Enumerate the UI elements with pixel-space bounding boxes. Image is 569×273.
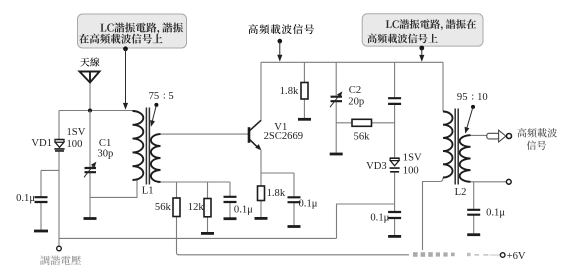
pointer L2 ratio arrow [467,107,473,129]
wire C2 branch [335,62,337,153]
svg-text:C1: C1 [99,138,111,149]
svg-text:0.1μ: 0.1μ [370,212,389,223]
svg-text:75: 75 [149,91,160,102]
pointer left callout arrow [125,49,127,105]
svg-text:VD1: VD1 [31,138,52,149]
svg-text:12k: 12k [188,202,205,213]
wire +6V rail [178,254,500,256]
svg-text:1.8k: 1.8k [267,188,286,199]
varactor VD1 [54,140,64,151]
wire VD1 to tuning terminal [58,152,60,247]
svg-text:5: 5 [168,91,173,102]
ground left filter [34,230,48,233]
svg-text:10: 10 [477,92,488,103]
wire tuning line step [337,204,395,238]
label tuning voltage [40,255,81,265]
resistor 1.8k emitter [258,186,265,201]
svg-text:100: 100 [403,165,419,176]
wire base [161,133,249,135]
pointer carrier arrow [279,41,281,57]
callout LC resonance left [78,14,187,48]
wire bias cap drop [229,182,231,218]
wire L2 output top [471,134,488,136]
node carrier pointer dot [278,39,283,44]
svg-text:2SC2669: 2SC2669 [264,131,303,142]
terminal output top [507,134,512,139]
wire VD3 to bypass cap [394,173,396,236]
node L2 ratio pointer dot [471,105,475,109]
ground bias cap [224,217,237,220]
resistor 12k [204,199,211,217]
svg-text:20p: 20p [348,97,364,108]
pointer right callout arrow [421,48,423,58]
antenna [80,72,100,83]
wire emitter bypass cap [293,173,295,225]
transformer L1 core [146,108,149,185]
transformer L1 primary [133,111,144,180]
svg-text:0.1μ: 0.1μ [234,205,253,216]
ground emitter cap [288,225,301,228]
svg-text::: : [471,91,474,102]
wire bias resistor drop [303,62,305,118]
svg-text:L2: L2 [455,187,467,198]
svg-text:56k: 56k [155,202,172,213]
node L1 ratio pointer dot [154,103,158,107]
wire C1 to ground [89,173,91,218]
output signal arrow [487,133,499,139]
node right callout pointer dot [419,46,424,51]
capacitor C2 [331,97,343,102]
svg-text:30p: 30p [97,148,113,159]
wire top-left rail [59,110,133,112]
wire 56k to +6V rail [177,217,179,255]
svg-text:1SV: 1SV [67,127,86,138]
ground 12k [201,232,214,235]
svg-text:1SV: 1SV [403,152,422,163]
label antenna [80,58,89,67]
resistor 56k bias [173,198,180,217]
wire emitter [261,150,294,217]
svg-text:+6V: +6V [507,251,526,262]
watermark on +6V rail [409,250,499,259]
wire top rail [261,61,443,63]
capacitor C1 [85,168,97,172]
svg-text:0.1μ: 0.1μ [299,199,318,210]
transformer L2 core [455,109,458,185]
svg-text:1.8k: 1.8k [280,86,299,97]
node left callout pointer dot [123,46,128,51]
label output signal [517,128,557,137]
capacitor coupling [388,98,401,104]
ground 1.8k bias [298,118,311,121]
pointer L1 ratio arrow [152,105,156,122]
wire L2 primary drop [442,62,444,111]
wire 56k drop [176,182,178,198]
svg-text:0.1μ: 0.1μ [486,208,505,219]
wire antenna to C1 [89,111,91,168]
node antenna junction [88,109,92,113]
callout LC resonance right [362,14,483,46]
svg-text:L1: L1 [142,185,154,196]
capacitor 0.1u output [467,210,480,215]
transformer L2 secondary [460,135,471,182]
wire L2 output bottom [471,181,507,183]
terminal output bottom [506,179,511,184]
wire coupling cap branch [394,62,396,157]
svg-text:95: 95 [457,92,468,103]
resistor 1.8k bias [301,83,308,100]
wire L2 bypass cap drop [473,182,475,234]
wire 56k horizontal link [336,122,394,124]
svg-text::: : [163,91,166,102]
capacitor 0.1u tuning filter [35,197,48,202]
wire antenna drop [89,83,91,111]
capacitor 0.1u bias [224,197,237,202]
svg-text:100: 100 [67,139,83,150]
terminal tuning voltage [57,246,62,251]
transistor V1 [249,120,261,150]
wire 12k drop [207,182,209,232]
wire L2 primary return [423,178,444,255]
ground C1 [84,217,97,220]
capacitor 0.1u emitter [288,197,301,202]
terminal +6V [500,253,505,258]
transformer L1 secondary [151,134,161,182]
capacitor 0.1u tuning line [388,212,401,218]
wire L1 primary bottom return [90,180,137,197]
wire tuning bus [59,237,337,239]
svg-text:0.1μ: 0.1μ [16,193,35,204]
varactor VD3 [390,158,400,172]
resistor 56k link [352,119,372,126]
wire collector [260,62,262,121]
svg-text:C2: C2 [349,85,361,96]
transformer L2 primary [443,112,453,178]
label carrier signal top [248,24,258,34]
wire RC filter branch [41,170,59,229]
wire bias rail [161,181,231,183]
ground C2 [330,153,343,156]
ground 1.8k emitter [255,217,268,220]
svg-text:VD3: VD3 [366,161,387,172]
ground output cap [467,233,480,236]
svg-text:56k: 56k [354,131,371,142]
ground tuning line cap [388,235,401,238]
wire VD1 branch drop [58,111,60,140]
